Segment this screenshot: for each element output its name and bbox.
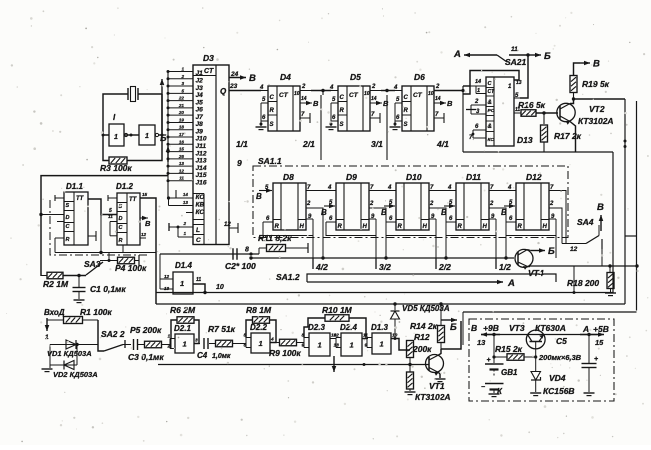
wire D1.1 output down to bus [100,215,102,253]
svg-text:SA2 2: SA2 2 [101,329,125,339]
svg-text:2: 2 [435,84,440,90]
svg-text:2: 2 [549,201,554,207]
resistor R9 100k [280,339,297,346]
dash-dot power box [469,319,614,401]
svg-text:R: R [270,108,275,114]
wire crystal right [138,93,162,95]
svg-text:В: В [381,208,387,217]
wire riser to D3 clock (up arrow) [161,79,163,135]
svg-text:D: D [66,215,70,221]
svg-text:В: В [313,99,319,108]
svg-text:13: 13 [183,200,189,205]
svg-text:10: 10 [294,91,300,97]
resistor R14 2k [440,304,442,326]
D3 input pin stubs J1-J16 [168,71,193,73]
svg-text:С3 0,1мк: С3 0,1мк [128,352,164,362]
zener VD4 [535,357,537,371]
svg-text:D8: D8 [283,172,294,182]
svg-text:3/1: 3/1 [371,139,383,149]
D1.2 drop to bus [122,245,124,253]
wire collector rail right [574,98,626,100]
svg-text:D1.2: D1.2 [116,182,133,191]
svg-text:1,0мк: 1,0мк [212,353,231,360]
svg-text:2: 2 [369,201,374,207]
resistor R19 5k [570,76,577,93]
svg-text:D1.3: D1.3 [371,323,388,332]
svg-text:+5В: +5В [593,324,609,334]
svg-text:11: 11 [179,176,184,181]
bus under dividers [251,257,514,259]
svg-text:VD5 КД503А: VD5 КД503А [402,304,450,313]
wire rail y292 [156,292,613,294]
wire crystal left [103,94,128,135]
resistor R10 1M feedback [325,315,349,322]
down arrow on rail [333,356,335,372]
svg-text:1/1: 1/1 [236,139,248,149]
svg-text:VТ3: VТ3 [509,323,525,333]
svg-text:23: 23 [229,83,238,90]
svg-text:1: 1 [114,134,118,141]
svg-text:R3 100к: R3 100к [100,163,132,173]
svg-text:10: 10 [364,91,370,97]
svg-text:J11: J11 [196,143,207,150]
svg-text:10: 10 [216,284,224,291]
svg-text:&: & [488,124,492,130]
svg-text:C: C [340,95,345,101]
svg-text:SA3: SA3 [84,259,101,269]
svg-text:2: 2 [489,201,494,207]
arrow B output [441,319,457,321]
svg-text:26: 26 [178,154,185,159]
svg-text:17: 17 [179,132,185,137]
svg-text:D2.2: D2.2 [250,323,267,332]
svg-text:2: 2 [301,84,306,90]
transistor VT1 [426,355,444,373]
svg-text:2/2: 2/2 [438,262,451,272]
svg-text:R: R [66,237,70,243]
resistor R11 8.2k [258,248,260,254]
wire SA2.1 to B arrow [509,54,528,56]
resistor R6 2M feedback [177,317,194,324]
svg-text:Б: Б [160,133,167,143]
svg-text:КВ: КВ [196,202,205,209]
svg-text:19: 19 [179,117,185,122]
svg-text:ВхоД: ВхоД [44,308,65,317]
svg-text:D3: D3 [203,53,214,63]
svg-text:3: 3 [195,338,198,344]
svg-text:R: R [275,224,280,230]
svg-text:1: 1 [350,341,354,350]
svg-text:R: R [119,238,123,244]
svg-text:D1.4: D1.4 [175,261,192,270]
svg-text:13: 13 [477,338,486,347]
D9 bottom loop wire [326,219,376,236]
svg-text:Б: Б [544,51,551,62]
resistor R12 200k [407,341,414,358]
wire D6 riser to D13 [462,86,464,152]
svg-text:D: D [119,216,123,222]
capacitor C4 1.0 [200,343,202,345]
svg-text:R: R [404,108,409,114]
wire R16 to VT2 base [536,112,558,114]
svg-text:4/2: 4/2 [315,262,328,272]
D1.1 pin stubs [55,197,64,199]
svg-text:11: 11 [511,46,518,53]
resistor R17 2k [543,113,545,124]
svg-text:5: 5 [181,88,184,93]
svg-text:В: В [256,192,262,201]
SA1.2 wiper arrow to A [307,281,430,283]
svg-text:1: 1 [181,67,184,72]
svg-text:R14 2к: R14 2к [410,321,438,331]
R13 ground [405,391,416,393]
svg-text:J12: J12 [196,150,207,157]
svg-text:R12: R12 [414,332,430,342]
resistor R16 5k [521,110,536,117]
diode VD1 [75,343,78,346]
D1.1 output wire to D1.2 [88,199,117,215]
IC D13 body [486,77,514,146]
dash-dot box around D1.1/D1.2 [50,200,150,255]
svg-text:1: 1 [180,279,184,288]
svg-text:J4: J4 [196,92,204,99]
divider tick after 2/1 [320,95,322,160]
D12 drop to bus [555,236,557,259]
svg-text:1: 1 [318,341,322,350]
VT4 collector arrow B [528,247,533,251]
svg-text:J7: J7 [196,114,204,121]
svg-text:Б: Б [548,246,555,257]
resistor R3 100k [109,157,127,164]
svg-text:14: 14 [183,192,189,197]
inverter block I (first) [109,124,124,146]
bus under flip-flops [55,252,156,254]
svg-text:1/2: 1/2 [499,262,511,272]
svg-text:D13: D13 [517,135,533,145]
wire D6 to D13 riser [434,90,463,92]
wire inverter output to riser [158,134,162,136]
wire between inverters [124,134,139,136]
svg-text:В: В [383,99,389,108]
svg-text:+9В: +9В [483,323,499,333]
svg-text:2: 2 [371,84,376,90]
tick between right rails [625,235,637,237]
svg-text:R: R [458,224,463,230]
wire rail y312 [463,311,637,313]
transistor VT4 [515,249,533,267]
svg-text:11: 11 [196,277,201,283]
svg-text:13: 13 [179,161,185,166]
svg-text:1: 1 [183,231,186,236]
D8 drop to bus [312,236,314,259]
svg-text:16: 16 [179,139,185,144]
inverter block I (second) [139,125,155,145]
svg-text:Н: Н [543,224,548,230]
svg-text:КТ3102А: КТ3102А [578,116,614,126]
gate D2.2 body [251,333,270,353]
svg-text:R17 2к: R17 2к [554,131,582,141]
wire SA3 to R4 [103,259,117,262]
svg-text:18: 18 [179,125,185,130]
svg-text:КС156В: КС156В [543,386,575,396]
wire R19 top to B arrow [574,63,581,76]
D1.2 pin stubs [108,197,117,199]
svg-text:А: А [453,49,461,60]
svg-text:12: 12 [141,232,147,237]
gate D2.1 body [175,334,194,353]
svg-text:1: 1 [145,133,149,140]
D3 pin bus vertical [167,72,169,199]
svg-text:L: L [196,227,200,234]
svg-text:SA1.1: SA1.1 [258,156,282,166]
svg-text:2: 2 [474,99,479,105]
svg-text:14: 14 [371,96,377,102]
svg-text:200мк×6,3В: 200мк×6,3В [538,353,582,362]
svg-text:S: S [404,122,408,128]
svg-text:J15: J15 [196,172,207,179]
D3 bottom cells L and C [203,194,205,245]
svg-text:R11 8,2к: R11 8,2к [258,233,292,243]
svg-text:В: В [597,202,604,213]
svg-text:3/2: 3/2 [379,262,391,272]
svg-text:J6: J6 [196,107,204,114]
svg-text:Q: Q [220,87,227,96]
svg-text:15: 15 [595,338,604,347]
D4 ground [256,126,267,128]
svg-text:КО: КО [196,194,205,201]
svg-text:А: А [582,324,589,334]
wire base rail [158,364,429,366]
svg-text:В: В [249,73,256,84]
D11 bottom loop wire [446,219,496,236]
capacitor C3 0.1 [133,339,135,350]
D9 drop to bus [375,236,377,259]
svg-text:С4: С4 [197,351,208,360]
svg-text:КС: КС [488,137,495,143]
svg-text:1: 1 [259,339,263,348]
svg-text:R10 1М: R10 1М [322,305,353,315]
quartz crystal ZQ1 [127,88,129,100]
svg-text:С5: С5 [556,336,567,346]
svg-text:А: А [507,278,515,289]
wire 8 from D3 region [160,253,259,255]
svg-text:GВ1: GВ1 [501,368,518,377]
svg-text:2: 2 [180,74,184,79]
svg-text:CТ: CТ [279,92,289,99]
wire D12 pin7 to SA4 [549,191,566,244]
resistor R13 [407,372,414,389]
svg-text:Р5 200к: Р5 200к [130,325,162,335]
svg-text:В: В [321,208,327,217]
svg-text:8: 8 [245,247,249,254]
svg-text:КС: КС [196,209,205,216]
svg-text:SA4: SA4 [577,217,594,227]
svg-text:14: 14 [301,96,307,102]
svg-text:CТ: CТ [413,92,423,99]
svg-text:15: 15 [179,147,185,152]
D1.2 output 2 arrow B [140,217,148,219]
svg-text:J3: J3 [196,85,204,92]
divider D8 body [273,183,306,230]
svg-text:J2: J2 [196,77,204,84]
svg-text:2: 2 [182,221,186,226]
wire SA3 node up [108,253,110,261]
svg-text:Н: Н [363,224,368,230]
dash-dot box SA1.1 [253,166,568,238]
gate D1.4 body [173,272,193,294]
wire D13/VT2 emitter bottom rail [463,151,613,153]
divider D11 body [456,183,489,230]
C1 ground [74,299,85,301]
diode VD2 [49,345,51,366]
GB1 ground [493,390,495,394]
C5 ground [584,392,595,394]
svg-text:D6: D6 [414,72,425,82]
gate D2.4 body [341,333,362,356]
wire to C3 [123,344,131,346]
svg-text:J8: J8 [196,121,204,128]
gate D1.3 body [372,333,391,354]
svg-text:С1 0,1мк: С1 0,1мк [90,284,126,294]
svg-text:R18 200: R18 200 [567,278,599,288]
resistor R18 200 [609,266,611,272]
svg-text:+: + [594,356,598,363]
svg-text:J16: J16 [196,179,207,186]
svg-text:22: 22 [178,96,185,101]
wire rail y304 [156,303,625,305]
svg-text:R16 5к: R16 5к [518,100,546,110]
wire collector to B [441,321,461,349]
counter D6 body [402,86,434,131]
svg-text:R8 1М: R8 1М [246,305,272,315]
svg-text:13: 13 [516,80,522,86]
wire top-left feed [41,176,168,276]
capacitor C2* 100 [232,248,234,260]
svg-text:J13: J13 [196,158,207,165]
switch SA2.1 arm [497,55,507,62]
svg-text:VD2 КД503А: VD2 КД503А [53,370,98,379]
gate D2.3 body [309,333,330,356]
svg-text:R9 100к: R9 100к [269,348,301,358]
svg-text:R: R [518,224,523,230]
wire R3 leads [103,135,109,161]
svg-text:12: 12 [179,168,185,173]
divider tick after 3/1 [386,95,388,160]
D8 bottom loop wire [263,219,313,236]
SA4 contact bar [601,239,603,249]
svg-text:J10: J10 [196,136,207,143]
svg-text:14: 14 [475,79,481,85]
svg-text:В: В [441,208,447,217]
svg-text:SA21: SA21 [505,57,527,67]
VT1 emitter ground [435,378,446,380]
wire VT4 emitter drop [573,266,575,293]
svg-text:10: 10 [428,91,434,97]
svg-text:2: 2 [429,201,434,207]
svg-text:S: S [340,122,344,128]
R18 ground [605,292,616,294]
D6 ground [390,126,401,128]
resistor R8 1M feedback [253,317,270,324]
svg-text:Н: Н [300,224,305,230]
svg-text:J1: J1 [196,70,204,77]
svg-text:CТ: CТ [349,92,359,99]
D10 bottom loop wire [386,219,436,236]
svg-text:D2.4: D2.4 [340,323,357,332]
svg-text:D10: D10 [406,172,422,182]
svg-text:3: 3 [181,81,184,86]
svg-text:J9: J9 [196,128,204,135]
resistor R4 100k [118,257,135,264]
resistor R15 2k [507,354,524,361]
D5 ground [326,126,337,128]
svg-text:В: В [593,59,600,70]
D11 drop to bus [495,236,497,259]
resistor R1 100k [64,317,83,324]
svg-text:4/1: 4/1 [436,139,449,149]
transistor VT2 [557,103,575,121]
svg-text:C: C [404,95,409,101]
wire SA4 row [562,243,586,245]
svg-text:12: 12 [164,274,170,279]
svg-text:VТ2: VТ2 [589,104,605,114]
svg-text:R7 51к: R7 51к [208,324,236,334]
svg-text:CТ: CТ [204,68,214,75]
terminator tick near D3 pin 14 [175,190,177,198]
svg-text:R6 2М: R6 2М [170,305,196,315]
wire SA2.1 down to D13 pin5 [520,55,528,98]
R4 terminator [135,260,140,262]
svg-text:21: 21 [178,103,185,108]
svg-text:R: R [398,224,403,230]
svg-text:+: + [487,357,491,364]
svg-text:D5: D5 [350,72,361,82]
svg-text:14: 14 [435,96,441,102]
wire D5 to D6 [381,90,395,92]
resistor R2 1M [47,272,63,279]
svg-text:−: − [481,384,485,391]
right rail vertical B [636,101,638,311]
svg-text:В: В [447,99,453,108]
svg-text:D11: D11 [466,172,481,182]
svg-text:1: 1 [183,340,187,349]
diode VD5 [393,302,396,305]
VT4 emitter wire [528,266,531,268]
svg-text:J14: J14 [196,165,207,172]
svg-text:11: 11 [108,214,113,219]
svg-text:В: В [145,219,151,228]
wire D1.3 output [391,339,410,351]
capacitor C1 0.1 [78,276,80,288]
svg-text:1: 1 [45,334,49,341]
svg-text:R: R [338,224,343,230]
svg-text:VD1 КД503А: VD1 КД503А [47,349,92,358]
svg-text:РО: РО [488,108,495,114]
svg-text:Р4 100к: Р4 100к [115,263,147,273]
svg-text:R19 5к: R19 5к [582,79,610,89]
svg-text:D2.3: D2.3 [308,323,325,332]
D12 bottom loop wire [506,219,556,236]
svg-text:В: В [471,323,477,333]
svg-text:R: R [340,108,345,114]
svg-text:200к: 200к [412,344,432,354]
D1.1 lower output terminator [88,235,96,237]
wire down to D1.4 inputs [159,254,161,289]
svg-text:12: 12 [570,246,578,253]
svg-text:2: 2 [306,201,311,207]
svg-text:D2.1: D2.1 [174,324,191,333]
svg-text:S: S [66,203,70,209]
